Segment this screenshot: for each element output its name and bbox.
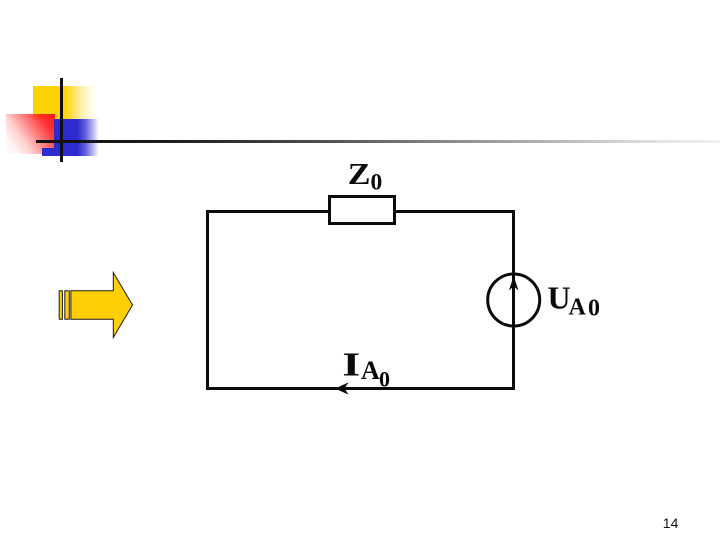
- svg-text:0: 0: [379, 366, 390, 391]
- svg-text:0: 0: [588, 295, 600, 321]
- logo blue rectangle: [54, 119, 99, 156]
- label U_A0: [540, 278, 620, 323]
- svg-text:I: I: [342, 345, 360, 383]
- page number 14: [663, 518, 679, 529]
- svg-text:Z: Z: [348, 157, 371, 191]
- logo vertical line: [60, 78, 63, 162]
- horizontal rule: [36, 140, 720, 143]
- arrowhead left I_A0 on bottom wire: [334, 380, 352, 398]
- arrowhead up inside source: [504, 273, 524, 293]
- svg-text:A: A: [569, 295, 587, 321]
- wire top: [206, 210, 515, 213]
- svg-text:0: 0: [371, 169, 383, 195]
- resistor Z0: [328, 195, 396, 226]
- logo yellow square: [33, 86, 64, 119]
- wire left: [206, 210, 209, 390]
- source U_A0 circle: [484, 270, 544, 331]
- wire right: [512, 210, 515, 390]
- svg-text:U: U: [548, 280, 571, 316]
- logo yellow fade: [63, 86, 95, 119]
- logo small blue square: [42, 148, 55, 157]
- label I_A0: [336, 345, 400, 393]
- wire bottom: [206, 387, 515, 390]
- svg-text:A: A: [361, 356, 380, 385]
- logo red square: [6, 114, 55, 154]
- label Z0: [330, 150, 400, 200]
- yellow block arrow: [58, 271, 135, 339]
